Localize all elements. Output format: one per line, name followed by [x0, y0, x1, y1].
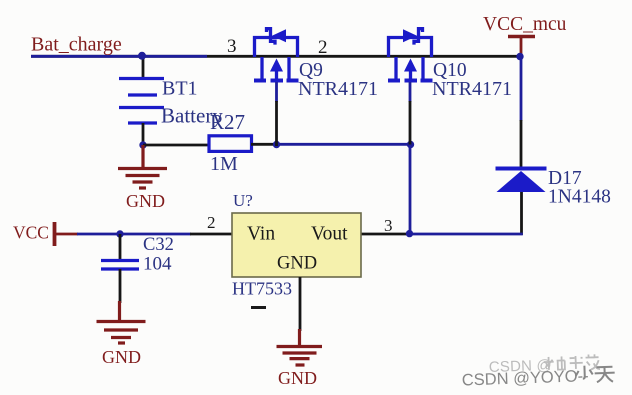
wire battery bottom — [142, 123, 145, 146]
svg-text:VCC: VCC — [13, 223, 49, 243]
wire VCC_mcu down (black part) — [520, 120, 523, 168]
svg-text:NTR4171: NTR4171 — [298, 78, 378, 100]
svg-text:GND: GND — [126, 191, 165, 211]
capacitor C32 — [101, 261, 139, 270]
watermark line 2 — [461, 365, 615, 390]
junction dot Q10 pin — [407, 141, 414, 148]
junction dot top rail / battery — [138, 52, 146, 60]
svg-text:U?: U? — [233, 191, 253, 210]
wire box GND pin — [299, 277, 302, 331]
wire R27 to Q10 pin — [251, 143, 277, 146]
wire main top rail Bat_charge to VCC_mcu — [31, 55, 520, 58]
svg-text:Bat_charge: Bat_charge — [31, 34, 122, 56]
wire VCC_mcu down (navy part) — [520, 57, 523, 122]
svg-text:1M: 1M — [210, 153, 238, 175]
svg-text:2: 2 — [207, 213, 216, 232]
transistor Q9 — [254, 29, 299, 81]
svg-text:HT7533: HT7533 — [232, 279, 292, 299]
svg-text:3: 3 — [227, 36, 237, 57]
ground (box) — [277, 329, 323, 365]
junction dot Vout / Q10 — [406, 230, 413, 237]
svg-text:R27: R27 — [210, 110, 245, 134]
svg-text:GND: GND — [102, 347, 141, 367]
wire Q9 gate down — [275, 82, 278, 102]
wire battery top — [142, 57, 145, 79]
battery BT1 — [119, 79, 164, 124]
svg-text:BT1: BT1 — [162, 78, 198, 100]
svg-text:3: 3 — [384, 216, 393, 235]
wire navy segment on top rail — [31, 55, 207, 58]
watermark line 1 — [489, 354, 601, 376]
wire to R27 — [143, 144, 209, 147]
minus mark — [251, 306, 266, 309]
resistor R27 — [209, 136, 252, 152]
svg-text:2: 2 — [318, 37, 328, 58]
svg-text:104: 104 — [143, 254, 172, 275]
ground (C32) — [97, 301, 146, 343]
svg-text:C32: C32 — [143, 235, 174, 255]
wire Q10 drain down to Vout rail — [409, 82, 412, 102]
op-amp U? regulator box — [232, 213, 361, 277]
junction dot C32 — [116, 230, 123, 237]
svg-text:1N4148: 1N4148 — [548, 187, 611, 208]
wire C32 bottom — [119, 269, 122, 303]
ground (battery) — [118, 145, 167, 188]
wire Vout rail — [361, 233, 410, 236]
junction dot Q9 pin — [273, 141, 280, 148]
svg-text:NTR4171: NTR4171 — [432, 78, 512, 100]
transistor Q10 — [388, 29, 433, 81]
svg-text:VCC_mcu: VCC_mcu — [483, 14, 567, 35]
svg-text:Vin: Vin — [247, 224, 275, 245]
wire C32 top — [119, 234, 122, 260]
wire VCC to Vin — [77, 233, 191, 236]
svg-text:GND: GND — [277, 254, 317, 274]
junction dot VCC_mcu — [516, 53, 523, 60]
wire D17 bottom — [520, 192, 523, 235]
junction dot battery / R27 — [139, 141, 146, 148]
diode D17 — [496, 167, 547, 171]
svg-text:GND: GND — [278, 368, 317, 388]
svg-text:Vout: Vout — [311, 224, 348, 245]
